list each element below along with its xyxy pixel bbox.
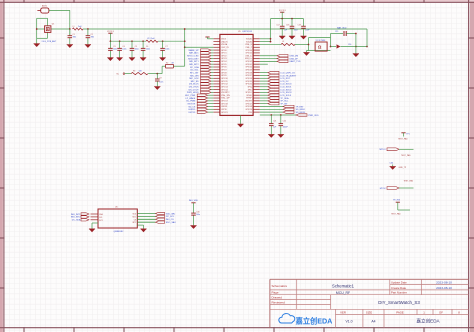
svg-text:I2S_LRCK: I2S_LRCK — [189, 87, 199, 89]
svg-text:SD_MISO: SD_MISO — [296, 109, 306, 111]
svg-text:L2 2.2uH: L2 2.2uH — [147, 38, 155, 40]
svg-text:Update Date: Update Date — [391, 280, 407, 284]
svg-text:嘉立创EDA: 嘉立创EDA — [295, 316, 333, 325]
svg-text:IMU_INT1: IMU_INT1 — [71, 214, 81, 216]
svg-text:LNA_IN: LNA_IN — [221, 40, 228, 43]
svg-text:GPIO39: GPIO39 — [245, 70, 252, 72]
svg-text:TEST_PAD: TEST_PAD — [391, 213, 401, 216]
svg-text:R3: R3 — [133, 71, 135, 73]
svg-text:U0RXD: U0RXD — [188, 109, 196, 111]
svg-text:TP_RST: TP_RST — [296, 106, 305, 108]
svg-text:MCU_RF: MCU_RF — [336, 291, 350, 295]
svg-text:LCD_SCLK: LCD_SCLK — [280, 95, 291, 97]
svg-text:VDD_IMU: VDD_IMU — [166, 213, 176, 215]
svg-text:IMU_INT2: IMU_INT2 — [189, 64, 199, 66]
svg-text:U0RXD: U0RXD — [221, 106, 228, 108]
svg-text:C9: C9 — [159, 78, 161, 80]
svg-text:SD_CS: SD_CS — [188, 106, 196, 108]
svg-text:TP1: TP1 — [406, 133, 409, 135]
svg-text:GPIO35: GPIO35 — [245, 81, 252, 83]
svg-text:Schematic1: Schematic1 — [332, 284, 355, 289]
svg-text:MTDI_KEY: MTDI_KEY — [188, 58, 199, 60]
svg-text:GPIO1: GPIO1 — [221, 53, 227, 55]
svg-text:LCD_SDO3: LCD_SDO3 — [280, 92, 292, 94]
svg-text:MTCK: MTCK — [380, 188, 387, 190]
svg-text:VER: VER — [340, 311, 346, 315]
svg-text:INT2: INT2 — [132, 222, 136, 224]
svg-text:GPIO21: GPIO21 — [221, 112, 228, 114]
svg-text:SPICLK: SPICLK — [245, 92, 252, 94]
svg-text:GND_TP: GND_TP — [399, 167, 407, 169]
svg-text:R2: R2 — [166, 62, 168, 64]
svg-text:GPIO38: GPIO38 — [245, 72, 252, 74]
svg-text:MIC_SD: MIC_SD — [191, 81, 199, 83]
svg-text:嘉立创EDA: 嘉立创EDA — [416, 317, 440, 324]
svg-text:C21: C21 — [273, 120, 276, 122]
svg-text:TEST_PAD: TEST_PAD — [398, 138, 408, 141]
svg-text:LP_WAKE: LP_WAKE — [186, 97, 196, 100]
svg-text:VDD3RTC: VDD3RTC — [221, 92, 230, 94]
svg-text:I2C_SDA: I2C_SDA — [72, 219, 81, 222]
svg-text:U0TXD: U0TXD — [188, 112, 195, 114]
svg-text:MOTOR: MOTOR — [188, 103, 196, 105]
svg-text:XTAL_32N: XTAL_32N — [221, 94, 230, 97]
svg-text:GPIO11: GPIO11 — [221, 81, 227, 83]
svg-text:IMU_INT2: IMU_INT2 — [71, 217, 81, 219]
svg-text:SPIHD: SPIHD — [246, 95, 252, 97]
svg-text:C18: C18 — [286, 24, 289, 26]
svg-text:100n: 100n — [159, 82, 163, 84]
svg-text:SPIQ: SPIQ — [248, 86, 253, 88]
svg-text:TP_3V3: TP_3V3 — [393, 200, 401, 202]
svg-text:100nF: 100nF — [283, 127, 289, 129]
svg-text:OF: OF — [439, 311, 443, 315]
svg-text:TP_SCL: TP_SCL — [280, 101, 289, 103]
svg-text:SPIWP: SPIWP — [246, 98, 253, 100]
svg-text:GPIO13: GPIO13 — [221, 86, 228, 88]
svg-text:Schematics: Schematics — [272, 284, 288, 288]
svg-text:GPIO37: GPIO37 — [245, 75, 252, 77]
svg-text:V1.0: V1.0 — [346, 320, 353, 324]
svg-text:RTC_INT: RTC_INT — [190, 72, 199, 74]
svg-text:100n: 100n — [165, 49, 169, 51]
svg-text:LCD_SDO0: LCD_SDO0 — [280, 84, 292, 86]
svg-text:GPIO4: GPIO4 — [221, 61, 227, 63]
svg-text:IMU_CS: IMU_CS — [166, 219, 174, 221]
svg-text:VDD3A: VDD3A — [221, 43, 228, 46]
svg-text:C17: C17 — [276, 24, 279, 26]
svg-text:INT1: INT1 — [99, 220, 103, 222]
svg-text:GPIO36: GPIO36 — [245, 78, 252, 80]
svg-text:MTDO_LED: MTDO_LED — [187, 56, 199, 58]
svg-text:VDDSPI: VDDSPI — [245, 101, 252, 103]
svg-text:2023-08-10: 2023-08-10 — [436, 281, 452, 285]
svg-text:100n: 100n — [113, 49, 117, 51]
svg-text:DIY_SmartWatch_S3: DIY_SmartWatch_S3 — [378, 300, 420, 305]
svg-text:LCD_TE_ALERT: LCD_TE_ALERT — [280, 74, 297, 77]
svg-text:GPIO7: GPIO7 — [221, 70, 227, 72]
svg-text:SCL: SCL — [99, 217, 102, 219]
svg-text:U0TXD: U0TXD — [221, 109, 228, 111]
svg-text:100n: 100n — [196, 214, 200, 216]
svg-text:PAGE: PAGE — [396, 311, 404, 315]
svg-text:GPIO2: GPIO2 — [221, 55, 227, 57]
svg-text:TEST_PAD: TEST_PAD — [401, 154, 411, 157]
svg-text:WAKE_UP: WAKE_UP — [189, 49, 200, 52]
svg-text:100n: 100n — [146, 49, 150, 51]
svg-text:LCD_SDO1: LCD_SDO1 — [280, 87, 292, 89]
svg-text:100n: 100n — [122, 49, 126, 51]
svg-text:QMI8658C: QMI8658C — [113, 231, 124, 233]
svg-text:VDDA2: VDDA2 — [246, 40, 252, 43]
svg-text:SPICS0: SPICS0 — [245, 84, 251, 86]
svg-text:I2C_SCL: I2C_SCL — [190, 70, 199, 72]
svg-text:VCC3.3: VCC3.3 — [107, 31, 114, 33]
svg-text:GPIO6: GPIO6 — [221, 67, 227, 69]
svg-text:MIC_WS: MIC_WS — [190, 75, 199, 77]
svg-text:UART_TXD: UART_TXD — [290, 60, 301, 63]
svg-text:VDDA1: VDDA1 — [246, 38, 252, 41]
svg-text:C22: C22 — [283, 120, 286, 122]
svg-text:TP_SDA: TP_SDA — [280, 97, 289, 100]
svg-text:C16: C16 — [348, 44, 351, 46]
svg-text:VDD3: VDD3 — [221, 39, 226, 41]
svg-text:MTDO: MTDO — [379, 149, 386, 151]
svg-text:SAR_VDD: SAR_VDD — [337, 27, 347, 30]
svg-text:GPIO5: GPIO5 — [221, 64, 227, 66]
svg-text:BAT_ADC: BAT_ADC — [189, 52, 199, 55]
svg-text:SDO_SAO: SDO_SAO — [166, 221, 176, 224]
svg-text:GPIO26: GPIO26 — [245, 109, 252, 111]
svg-text:GPIO41: GPIO41 — [245, 64, 252, 66]
svg-text:Part Number: Part Number — [391, 291, 407, 295]
svg-text:I2C_SCL: I2C_SCL — [166, 216, 175, 218]
svg-text:100n: 100n — [294, 30, 298, 32]
svg-text:USB_DP: USB_DP — [290, 58, 299, 60]
svg-text:L3: L3 — [282, 41, 284, 43]
svg-text:I2S_BCLK: I2S_BCLK — [189, 84, 199, 86]
svg-text:A4: A4 — [371, 320, 375, 324]
svg-text:GPIO47: GPIO47 — [245, 103, 252, 105]
svg-text:VCC3.3: VCC3.3 — [279, 10, 286, 12]
svg-text:ESP32-S3: ESP32-S3 — [243, 31, 253, 33]
svg-text:MIC_SCK: MIC_SCK — [189, 78, 199, 80]
svg-text:GPIO48: GPIO48 — [245, 106, 252, 108]
svg-text:2023-08-10: 2023-08-10 — [436, 286, 452, 290]
svg-text:LCD_SDO2: LCD_SDO2 — [280, 89, 292, 91]
svg-text:Page: Page — [272, 291, 279, 295]
svg-text:GPIO8: GPIO8 — [221, 72, 227, 74]
svg-text:Drawed: Drawed — [272, 296, 283, 300]
svg-text:Reviewed: Reviewed — [272, 300, 286, 304]
svg-text:GPIO0: GPIO0 — [221, 50, 227, 52]
svg-text:GPIO17: GPIO17 — [221, 101, 228, 103]
svg-text:USB_D+: USB_D+ — [245, 58, 252, 60]
svg-text:I2C_SDA: I2C_SDA — [190, 66, 199, 69]
svg-text:LCD_DC: LCD_DC — [280, 81, 289, 83]
svg-text:USB_DM: USB_DM — [290, 56, 299, 58]
svg-text:SIZE: SIZE — [366, 311, 372, 315]
svg-text:GPIO45: GPIO45 — [245, 53, 252, 55]
svg-text:CHIP_PU: CHIP_PU — [221, 47, 229, 49]
svg-text:LCD_QSPI_CS: LCD_QSPI_CS — [280, 72, 295, 74]
svg-text:GPIO18: GPIO18 — [221, 103, 228, 105]
svg-text:XTAL_N: XTAL_N — [245, 43, 252, 46]
svg-text:IMU_INT1: IMU_INT1 — [189, 61, 199, 63]
svg-text:ANT1: ANT1 — [42, 4, 48, 7]
svg-text:GPIO9: GPIO9 — [221, 75, 227, 77]
svg-text:GPIO3: GPIO3 — [221, 58, 227, 60]
svg-text:XTAL_P: XTAL_P — [245, 46, 252, 49]
svg-text:GPIO40: GPIO40 — [245, 67, 252, 69]
svg-text:IMU_VDD: IMU_VDD — [189, 200, 199, 202]
svg-text:C19: C19 — [298, 24, 301, 26]
svg-text:TEST_PAD: TEST_PAD — [404, 180, 414, 183]
svg-text:I2S_DOUT: I2S_DOUT — [188, 89, 199, 91]
svg-text:GPIO42: GPIO42 — [245, 61, 252, 63]
svg-text:KEY_PWR: KEY_PWR — [185, 95, 196, 97]
svg-text:Create Date: Create Date — [391, 286, 407, 290]
svg-text:LCD_RST: LCD_RST — [280, 78, 290, 80]
svg-text:C15: C15 — [335, 31, 338, 33]
svg-text:USB_D-: USB_D- — [245, 55, 252, 57]
svg-text:100n: 100n — [135, 49, 139, 51]
svg-text:GPIO12: GPIO12 — [221, 84, 228, 86]
svg-text:2.4G_PCB_ANT: 2.4G_PCB_ANT — [42, 40, 57, 43]
svg-text:SPID: SPID — [248, 89, 253, 91]
svg-text:X1 32.768K: X1 32.768K — [316, 40, 327, 42]
svg-text:L1: L1 — [73, 26, 75, 28]
svg-text:XTAL_32P: XTAL_32P — [221, 97, 230, 100]
svg-text:GPIO46: GPIO46 — [245, 50, 252, 52]
svg-text:GPIO10: GPIO10 — [221, 78, 228, 80]
svg-text:PWR_VDD: PWR_VDD — [308, 115, 319, 117]
svg-text:BL_PWM: BL_PWM — [187, 101, 196, 103]
svg-text:GPIO14: GPIO14 — [221, 89, 228, 91]
